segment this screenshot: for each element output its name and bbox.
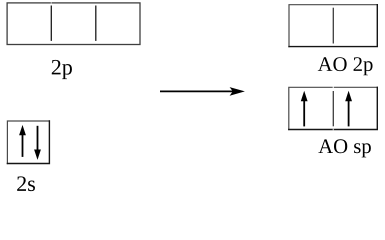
up-spin electron arrow in AO sp right cell — [345, 91, 352, 127]
AO sp box divider — [332, 91, 334, 126]
AO sp orbital box — [289, 87, 378, 129]
border break artifact on AO sp box top edge — [333, 87, 334, 89]
down-spin electron arrow in 2s box — [34, 126, 41, 160]
label AO sp — [318, 139, 370, 157]
border break artifact on AO sp box bottom edge — [333, 129, 334, 131]
reaction arrow — [160, 87, 245, 96]
up-spin electron arrow in 2s box — [19, 125, 26, 157]
2p box divider 2 — [95, 6, 97, 41]
up-spin electron arrow in AO sp left cell — [301, 91, 308, 127]
label 2p — [52, 60, 72, 79]
label 2s — [17, 176, 35, 191]
2p box divider 1 — [50, 6, 52, 41]
2s orbital box — [7, 121, 49, 164]
border break artifact on 2p box top edge — [51, 2, 52, 3]
label AO 2p — [318, 57, 373, 75]
2p orbital box — [7, 3, 140, 45]
AO 2p box divider — [332, 8, 334, 44]
AO 2p orbital box — [289, 5, 377, 47]
